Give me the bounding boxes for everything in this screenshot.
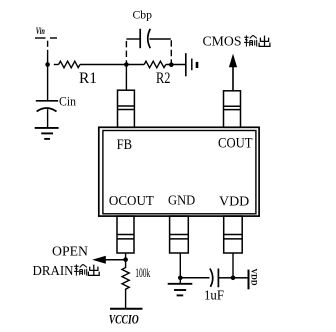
svg-text:Vin: Vin: [36, 26, 45, 36]
svg-text:VDD: VDD: [250, 269, 260, 286]
svg-text:GND: GND: [168, 193, 195, 208]
svg-text:R1: R1: [79, 70, 97, 87]
svg-text:OPEN: OPEN: [52, 244, 88, 259]
svg-text:VDD: VDD: [219, 193, 249, 208]
svg-text:DRAIN: DRAIN: [33, 263, 74, 278]
svg-text:Cin: Cin: [59, 94, 76, 109]
svg-text:R2: R2: [156, 70, 171, 87]
svg-text:OCOUT: OCOUT: [109, 193, 155, 208]
svg-text:1uF: 1uF: [204, 289, 224, 304]
svg-text:COUT: COUT: [218, 136, 253, 152]
svg-text:FB: FB: [117, 137, 133, 153]
svg-text:Cbp: Cbp: [133, 8, 153, 22]
svg-text:100k: 100k: [135, 265, 150, 280]
svg-text:CMOS: CMOS: [203, 34, 242, 49]
svg-text:VCCIO: VCCIO: [109, 312, 139, 326]
